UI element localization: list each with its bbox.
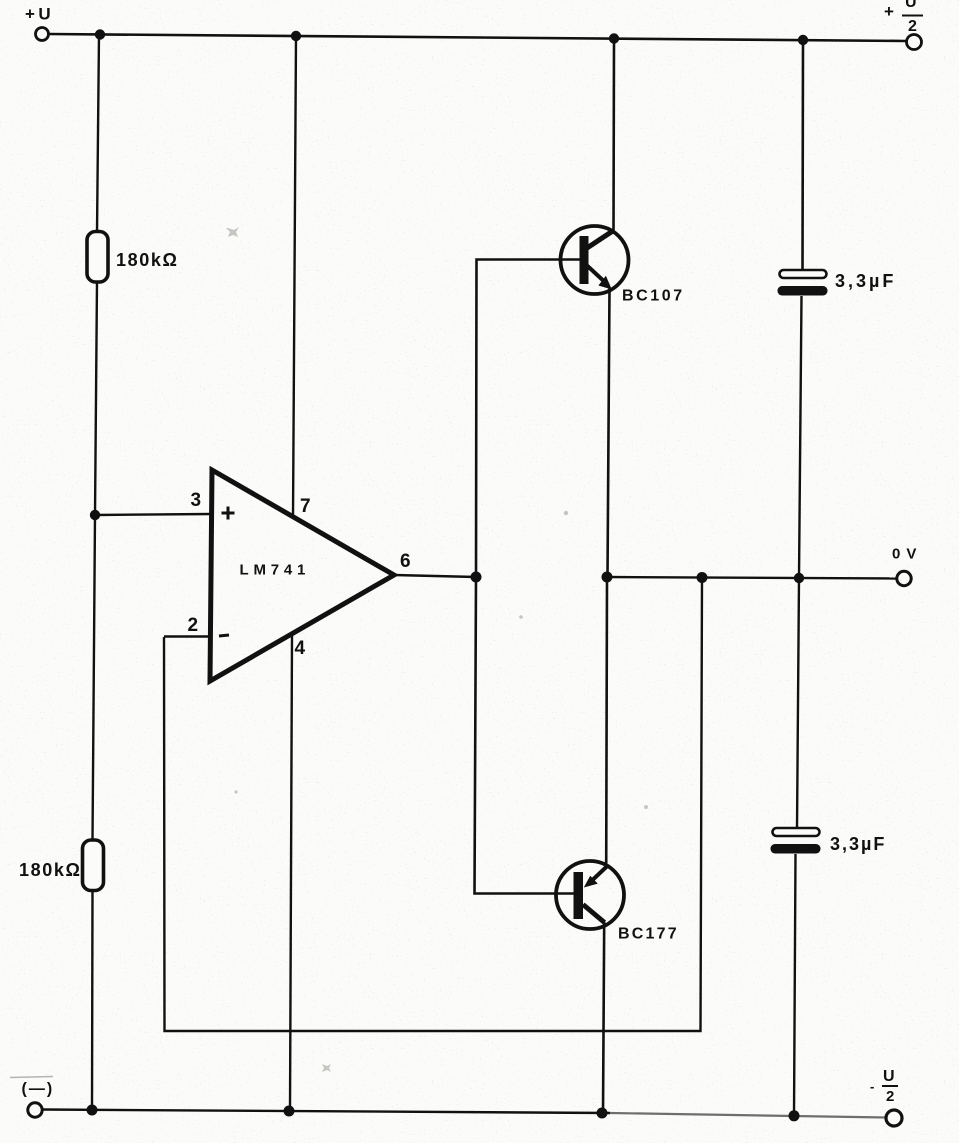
label +U (25, 5, 54, 24)
svg-text:180kΩ: 180kΩ (116, 250, 178, 270)
label pin 4 (295, 638, 306, 659)
svg-text:U: U (905, 0, 917, 11)
wire right vertical (C2 to bottom rail) (794, 854, 796, 1116)
resistor R2 (83, 840, 104, 891)
svg-text:3,3µF: 3,3µF (835, 271, 896, 291)
node output junction (471, 572, 482, 583)
wire left vertical (R2 to bottom rail) (91, 890, 94, 1110)
node top-left junction (95, 29, 105, 39)
node top rail BC107 collector junction (609, 33, 619, 43)
svg-text:LM741: LM741 (240, 562, 311, 579)
resistor R1 (87, 232, 108, 283)
wire right vertical (top rail to C1) (801, 40, 804, 271)
label BC177 (618, 926, 679, 943)
svg-text:U: U (883, 1068, 895, 1085)
label pin 7 (300, 496, 311, 517)
label 0V (892, 546, 922, 563)
label plus sign inside op-amp (222, 507, 235, 520)
node bottom rail BC177 collector junction (597, 1108, 608, 1119)
wire feedback (output 0V node to inverting input) (164, 578, 702, 1032)
node feedback tap junction (697, 572, 708, 583)
svg-text:3: 3 (191, 490, 202, 511)
wire BC107 emitter down to 0V node (608, 288, 610, 577)
label pin 6 (400, 551, 411, 572)
svg-text:2: 2 (908, 18, 917, 35)
label R1 value 180kΩ (116, 250, 178, 270)
svg-text:6: 6 (400, 551, 411, 572)
node noninverting input junction (90, 510, 100, 520)
wire pin 7 vertical (293, 36, 296, 517)
wire left vertical (top rail to R1) (97, 35, 99, 233)
terminal +U/2 (907, 35, 922, 50)
svg-text:2: 2 (886, 1088, 894, 1105)
label -U/2 (870, 1068, 898, 1105)
node bottom rail pin4 junction (284, 1106, 295, 1117)
wire inverting input (164, 635, 210, 637)
svg-text:+U: +U (25, 5, 54, 24)
label BC107 (622, 288, 685, 305)
svg-text:2: 2 (188, 615, 199, 636)
label pin 2 (188, 615, 199, 636)
label pin 3 (191, 490, 202, 511)
wire bottom rail (42, 1110, 886, 1118)
wire right vertical (0V node to C2) (797, 578, 799, 829)
transistor Q1 BC107 (561, 226, 629, 294)
wire left vertical (R1 to + input node) (95, 281, 97, 515)
label +U/2 (884, 0, 923, 35)
wire op-amp output (394, 575, 476, 577)
node top rail C1 junction (798, 35, 808, 45)
svg-text:0V: 0V (892, 546, 922, 563)
svg-text:180kΩ: 180kΩ (19, 860, 81, 880)
node C1-C2 midpoint junction (794, 573, 804, 583)
svg-text:3,3µF: 3,3µF (830, 834, 886, 854)
svg-text:BC177: BC177 (618, 926, 679, 943)
node bottom rail C2 junction (789, 1110, 800, 1121)
node bottom rail R2 junction (87, 1105, 98, 1116)
svg-text:-: - (870, 1079, 874, 1094)
wire top rail (49, 34, 906, 41)
capacitor C1 (778, 270, 828, 296)
terminal +U (36, 28, 49, 41)
wire BC107 collector to top rail (612, 39, 615, 233)
label minus sign inside op-amp (219, 635, 229, 636)
svg-text:7: 7 (300, 496, 311, 517)
label C2 value 3,3µF (830, 834, 886, 854)
terminal (-) (28, 1103, 42, 1117)
wire pin 4 vertical (290, 636, 292, 1111)
label (-) (10, 1077, 54, 1098)
label C1 value 3,3µF (835, 271, 896, 291)
wire base bus up (output node to BC107 base) (476, 260, 580, 578)
wire 0V line (607, 577, 897, 579)
svg-text:4: 4 (295, 638, 306, 659)
svg-text:(—): (—) (22, 1081, 55, 1098)
label LM741 (240, 562, 311, 579)
wire right vertical (C1 to 0V node) (799, 296, 802, 578)
terminal -U/2 (886, 1110, 902, 1126)
svg-text:BC107: BC107 (622, 288, 685, 305)
transistor Q2 BC177 (556, 861, 624, 929)
node top rail pin7 junction (291, 31, 301, 41)
node emitter bus 0V junction (602, 572, 613, 583)
terminal 0V (897, 571, 911, 585)
wire BC177 collector to bottom rail (603, 922, 604, 1113)
wire base bus down (output node to BC177 base) (475, 577, 575, 894)
capacitor C2 (771, 828, 821, 854)
op-amp U1 LM741 triangle (210, 470, 394, 681)
wire BC177 emitter up to 0V node (605, 577, 608, 867)
wire left vertical (+ input node to R2) (93, 515, 96, 841)
wire noninverting input (95, 514, 211, 515)
label R2 value 180kΩ (19, 860, 81, 880)
svg-text:+: + (884, 2, 894, 21)
